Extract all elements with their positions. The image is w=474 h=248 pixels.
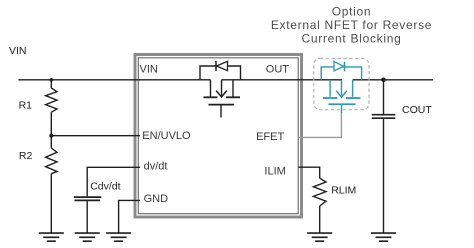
wire VIN horizontal (left to internal FET drain leg) bbox=[18, 79, 210, 81]
svg-text:R1: R1 bbox=[19, 99, 33, 111]
svg-text:R2: R2 bbox=[19, 150, 33, 162]
wire Cdv/dt to ground bbox=[86, 201, 88, 233]
external FET Q2 source leg bbox=[329, 80, 331, 97]
dashed option box bbox=[314, 59, 369, 110]
svg-text:Option: Option bbox=[332, 4, 372, 18]
wire GND pin to ground bbox=[119, 200, 140, 233]
svg-text:Current Blocking: Current Blocking bbox=[302, 32, 402, 46]
external FET Q2 drain leg bbox=[352, 80, 354, 97]
capacitor Cdv/dt bbox=[74, 197, 102, 200]
svg-text:EN/UVLO: EN/UVLO bbox=[142, 130, 191, 142]
external FET Q2 source bar bbox=[323, 97, 338, 99]
IC U1 outer box bbox=[135, 55, 302, 218]
external body diode cathode bar bbox=[344, 62, 346, 72]
ground under R2 bbox=[39, 233, 64, 241]
wire EFET gate (gray) bbox=[299, 113, 342, 137]
svg-text:ILIM: ILIM bbox=[264, 165, 285, 177]
wire external FET drain to output end bbox=[353, 79, 433, 81]
external body diode triangle bbox=[334, 62, 344, 72]
ground under COUT bbox=[371, 233, 396, 241]
svg-text:External NFET for Reverse: External NFET for Reverse bbox=[271, 18, 432, 32]
external FET Q2 body diode loop bbox=[321, 67, 361, 80]
wire output node to COUT bbox=[383, 80, 385, 114]
svg-text:OUT: OUT bbox=[266, 64, 290, 76]
external FET Q2 gate plate bbox=[328, 103, 355, 105]
wire internal FET body/source to external FET body bbox=[222, 79, 343, 81]
svg-text:VIN: VIN bbox=[9, 45, 27, 57]
wire R1 to R2 bbox=[50, 112, 52, 148]
internal body diode triangle bbox=[217, 61, 228, 70]
wire dv/dt pin to Cdv/dt bbox=[87, 167, 140, 196]
svg-text:EFET: EFET bbox=[256, 131, 284, 143]
IC U1 inner box bbox=[138, 58, 298, 214]
internal FET Q1 gate plate bbox=[209, 104, 235, 106]
svg-text:VIN: VIN bbox=[140, 64, 158, 76]
internal FET Q1 gate stub bbox=[220, 105, 222, 118]
junction dot R1/R2/EN bbox=[49, 134, 53, 138]
wire COUT to ground bbox=[383, 119, 385, 233]
svg-text:COUT: COUT bbox=[402, 104, 432, 116]
resistor RLIM bbox=[313, 178, 326, 206]
svg-text:dv/dt: dv/dt bbox=[144, 161, 168, 173]
internal FET Q1 body arrow bbox=[221, 80, 223, 96]
capacitor COUT bbox=[372, 115, 396, 119]
junction dot VIN/R1 bbox=[50, 78, 54, 82]
ground under RLIM bbox=[307, 233, 332, 241]
internal body diode cathode bar bbox=[215, 61, 217, 71]
svg-text:RLIM: RLIM bbox=[331, 185, 356, 197]
wire RLIM to ground bbox=[319, 206, 321, 233]
ground under Cdv/dt bbox=[75, 233, 100, 241]
wire ILIM to RLIM bbox=[299, 167, 320, 178]
internal FET Q1 drain bar bbox=[204, 96, 218, 98]
svg-text:Cdv/dt: Cdv/dt bbox=[90, 181, 120, 193]
wire VIN down to R1 bbox=[50, 80, 52, 88]
internal FET Q1 drain leg bbox=[210, 80, 212, 97]
external FET Q2 gate stub (teal) bbox=[341, 104, 343, 113]
internal FET Q1 source bar bbox=[226, 96, 240, 98]
external FET Q2 drain bar bbox=[346, 97, 361, 99]
resistor R2 bbox=[46, 148, 57, 174]
ground under GND pin bbox=[106, 233, 131, 241]
resistor R1 bbox=[46, 88, 57, 112]
wire EN/UVLO to divider tap bbox=[51, 135, 140, 137]
svg-text:GND: GND bbox=[144, 193, 169, 205]
junction dot output node bbox=[381, 78, 386, 83]
external FET Q2 body arrow bbox=[341, 80, 343, 96]
internal FET Q1 source leg bbox=[232, 80, 234, 97]
internal FET Q1 body diode loop bbox=[200, 66, 241, 80]
annotation text: Option / External NFET for Reverse / Current Blocking bbox=[271, 4, 432, 45]
wire R2 to ground bbox=[50, 174, 52, 233]
